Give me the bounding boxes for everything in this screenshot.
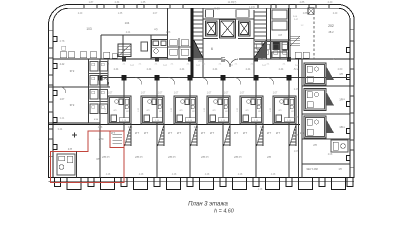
svg-text:103: 103 xyxy=(86,27,92,31)
svg-text:4.42: 4.42 xyxy=(60,63,65,66)
svg-text:6П: 6П xyxy=(114,110,117,112)
svg-text:2П: 2П xyxy=(234,155,238,159)
svg-text:11.38(?): 11.38(?) xyxy=(228,1,237,4)
svg-text:с/у: с/у xyxy=(154,27,158,31)
svg-text:2Г7: 2Г7 xyxy=(243,131,248,135)
svg-text:2.07: 2.07 xyxy=(153,13,158,15)
svg-text:План 3 этажа: План 3 этажа xyxy=(188,202,228,208)
svg-text:2Г7: 2Г7 xyxy=(267,131,272,135)
svg-text:4 Л: 4 Л xyxy=(278,33,282,37)
svg-text:6: 6 xyxy=(211,47,213,51)
svg-text:2Г7: 2Г7 xyxy=(201,131,206,135)
svg-text:2.40: 2.40 xyxy=(78,13,83,15)
svg-text:2.40: 2.40 xyxy=(333,13,338,15)
svg-text:2.08: 2.08 xyxy=(328,154,333,156)
svg-text:2П: 2П xyxy=(267,155,271,159)
svg-text:1.58: 1.58 xyxy=(166,32,171,34)
svg-text:2П: 2П xyxy=(168,155,172,159)
svg-text:2.44: 2.44 xyxy=(279,68,284,71)
svg-text:2Г7: 2Г7 xyxy=(210,131,215,135)
svg-text:2.40: 2.40 xyxy=(328,1,333,4)
svg-text:2.34: 2.34 xyxy=(115,1,120,4)
svg-text:6П: 6П xyxy=(180,110,183,112)
svg-text:h = 4.60: h = 4.60 xyxy=(214,209,234,215)
svg-text:3П: 3П xyxy=(96,157,100,161)
svg-text:2Г7: 2Г7 xyxy=(144,131,149,135)
svg-text:2П: 2П xyxy=(313,143,317,147)
svg-text:6П: 6П xyxy=(246,110,249,112)
svg-text:6П: 6П xyxy=(279,110,282,112)
svg-text:1.07: 1.07 xyxy=(294,151,299,153)
svg-text:1П: 1П xyxy=(338,167,341,171)
svg-text:2.70: 2.70 xyxy=(99,138,104,141)
svg-text:2.44: 2.44 xyxy=(114,68,119,71)
svg-text:2.60: 2.60 xyxy=(338,68,343,71)
svg-text:4.48: 4.48 xyxy=(106,174,111,176)
svg-text:3П: 3П xyxy=(206,157,209,159)
svg-text:2Г7: 2Г7 xyxy=(111,131,116,135)
svg-text:1.07: 1.07 xyxy=(207,93,212,95)
svg-text:0.44: 0.44 xyxy=(58,129,63,131)
svg-text:4.48: 4.48 xyxy=(139,174,144,176)
svg-text:2П: 2П xyxy=(135,155,139,159)
svg-text:202: 202 xyxy=(328,24,334,28)
svg-text:1.35: 1.35 xyxy=(141,1,146,4)
svg-text:1.07: 1.07 xyxy=(108,93,113,95)
svg-text:3П: 3П xyxy=(107,157,110,159)
svg-text:4 П: 4 П xyxy=(68,147,72,151)
svg-text:2Г7: 2Г7 xyxy=(168,131,173,135)
svg-text:2Г7: 2Г7 xyxy=(177,131,182,135)
svg-text:4.48: 4.48 xyxy=(271,174,276,176)
svg-text:2.44: 2.44 xyxy=(147,68,152,71)
svg-text:Л2-2: Л2-2 xyxy=(294,69,300,71)
svg-text:6П: 6П xyxy=(147,110,150,112)
svg-text:3Г2: 3Г2 xyxy=(70,69,75,73)
svg-text:3П: 3П xyxy=(239,157,242,159)
svg-text:4.48: 4.48 xyxy=(205,174,210,176)
svg-text:2.47: 2.47 xyxy=(294,89,299,91)
svg-text:4.48: 4.48 xyxy=(238,174,243,176)
svg-text:3.04: 3.04 xyxy=(260,127,265,129)
svg-text:4П: 4П xyxy=(178,49,181,51)
svg-text:2Г7: 2Г7 xyxy=(234,131,239,135)
svg-text:2Г7: 2Г7 xyxy=(276,131,281,135)
svg-text:1.07: 1.07 xyxy=(174,93,179,95)
svg-text:4.05: 4.05 xyxy=(294,135,299,137)
svg-text:4.48: 4.48 xyxy=(258,189,263,191)
svg-text:3П: 3П xyxy=(173,157,176,159)
svg-text:1П: 1П xyxy=(339,72,343,76)
svg-text:2.24: 2.24 xyxy=(126,32,131,34)
svg-text:1.07: 1.07 xyxy=(224,93,229,95)
svg-text:1.87: 1.87 xyxy=(89,1,94,4)
svg-text:104: 104 xyxy=(125,21,130,25)
svg-text:2П: 2П xyxy=(201,155,205,159)
svg-text:2.47: 2.47 xyxy=(294,117,299,119)
svg-text:3.04: 3.04 xyxy=(128,127,133,129)
svg-text:6П: 6П xyxy=(213,110,216,112)
svg-text:2.44: 2.44 xyxy=(246,68,251,71)
svg-text:2.08: 2.08 xyxy=(98,127,103,129)
svg-text:1.07: 1.07 xyxy=(60,98,65,101)
svg-text:2.78: 2.78 xyxy=(60,40,65,43)
svg-text:2Г7: 2Г7 xyxy=(135,131,140,135)
svg-text:4.48: 4.48 xyxy=(172,174,177,176)
svg-text:0.44: 0.44 xyxy=(60,118,65,120)
svg-text:2.44: 2.44 xyxy=(213,68,218,71)
svg-text:1.07: 1.07 xyxy=(273,93,278,95)
svg-text:1.1(3): 1.1(3) xyxy=(249,7,255,9)
svg-text:2П: 2П xyxy=(102,155,106,159)
svg-text:2.85: 2.85 xyxy=(303,13,308,15)
svg-text:1.07: 1.07 xyxy=(141,93,146,95)
svg-text:3П: 3П xyxy=(140,157,143,159)
svg-text:2.85: 2.85 xyxy=(300,1,305,4)
svg-text:1.35: 1.35 xyxy=(118,13,123,15)
svg-text:3.04: 3.04 xyxy=(194,127,199,129)
svg-text:1.07: 1.07 xyxy=(240,93,245,95)
svg-text:3Г2: 3Г2 xyxy=(70,103,75,107)
svg-text:28.2: 28.2 xyxy=(328,30,334,34)
svg-text:ЭШУ 3.068: ЭШУ 3.068 xyxy=(306,169,318,171)
svg-text:3.08: 3.08 xyxy=(214,7,220,11)
svg-text:1.07: 1.07 xyxy=(158,93,163,95)
svg-text:2.44: 2.44 xyxy=(180,68,185,71)
